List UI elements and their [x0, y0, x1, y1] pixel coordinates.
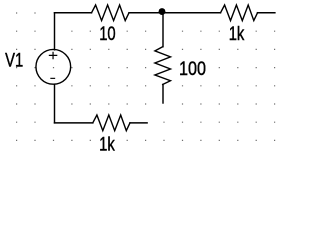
wire bottom-left horizontal — [55, 122, 93, 124]
svg-text:100: 100 — [179, 58, 206, 80]
resistor 10 — [92, 5, 130, 21]
resistor 1k bottom — [93, 115, 130, 131]
wire top-right — [258, 12, 275, 14]
wire top-left horizontal — [55, 12, 92, 14]
svg-text:V1: V1 — [5, 50, 23, 71]
resistor 100 — [155, 47, 171, 85]
wire top-left vertical — [54, 13, 56, 50]
svg-text:1k: 1k — [229, 23, 245, 44]
junction node — [159, 8, 166, 15]
wire bottom-right — [130, 122, 147, 124]
wire bottom-left vertical — [54, 85, 56, 123]
wire junction to resistor 100 — [162, 13, 164, 47]
resistor 1k top — [221, 5, 258, 21]
wire below resistor 100 — [162, 85, 164, 104]
svg-text:1k: 1k — [99, 134, 115, 155]
minus sign of V1 — [51, 77, 55, 79]
plus sign of V1 — [49, 52, 56, 58]
voltage source V1 — [36, 49, 71, 84]
wire top middle — [129, 12, 221, 14]
svg-text:10: 10 — [99, 23, 115, 44]
